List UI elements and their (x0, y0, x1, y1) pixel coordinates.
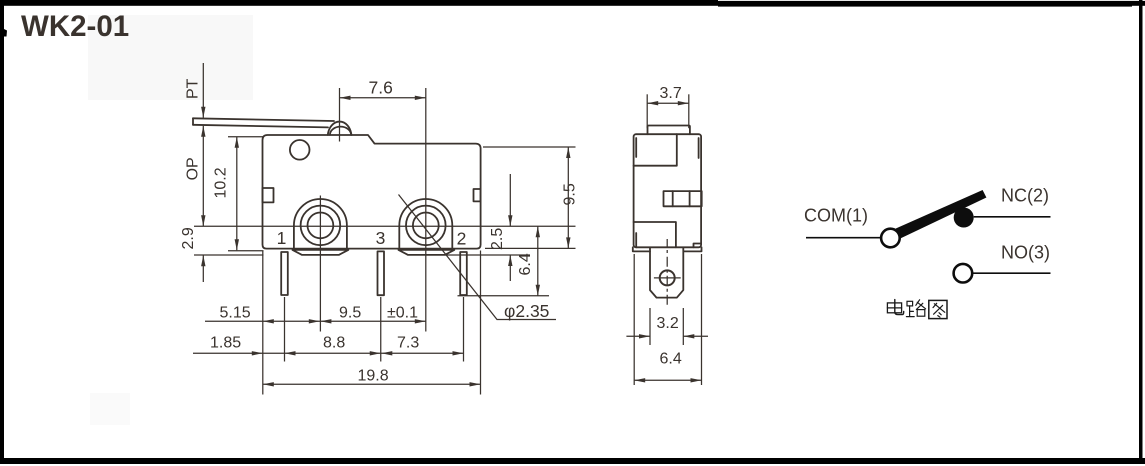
arrow PT down (201, 107, 205, 118)
ext pedestal bottom-left (194, 254, 264, 256)
svg-text:φ2.35: φ2.35 (504, 301, 549, 321)
dim row3 19.8 (263, 383, 481, 385)
arrow OP up (201, 126, 205, 137)
ext 3.2 right (682, 308, 684, 345)
arrow 9.5 up (566, 147, 570, 158)
ext body top-left for 10.2 (228, 136, 264, 138)
svg-text:±0.1: ±0.1 (387, 305, 418, 322)
arrow 9.5row right (415, 319, 426, 323)
switch body outline (263, 135, 481, 249)
side right edge tab upper (698, 138, 700, 158)
dim 9.5 vertical right (567, 147, 569, 248)
arrow 6.4 down (536, 285, 540, 296)
arrow 10.2 down (235, 239, 239, 250)
wire COM (806, 237, 881, 239)
left boss outer (294, 199, 347, 249)
left pedestal (293, 250, 349, 255)
side strip divider 2 (689, 191, 691, 206)
faint scan patch top-left (88, 15, 253, 100)
arrow 3.7 right (678, 101, 689, 105)
svg-text:5.15: 5.15 (220, 305, 251, 322)
arrowheads front view (201, 96, 570, 387)
arrow 2.9 up from below (201, 255, 205, 266)
left boss centerline vertical (319, 196, 321, 332)
svg-text:9.5: 9.5 (339, 305, 361, 322)
lever arm left end cap (192, 118, 194, 125)
dim 7.6 horizontal (340, 97, 426, 99)
svg-text:OP: OP (185, 157, 202, 180)
dim OP vertical (202, 126, 204, 227)
ext pin tip right for 6.4 (458, 295, 550, 297)
svg-text:WK2-01: WK2-01 (21, 10, 129, 43)
svg-text:6.4: 6.4 (660, 351, 682, 368)
dim 2.9 tail (202, 255, 204, 282)
page border: left bar (0, 0, 4, 458)
arrow 6.4 right (691, 378, 702, 382)
ext pin3 down (380, 297, 382, 362)
ext 6.4 right (701, 254, 703, 385)
faint scan patch bottom-left (90, 393, 130, 425)
side bottom-right corner step (694, 244, 702, 248)
right boss inner circle (413, 213, 439, 239)
ext 3.2 left (649, 308, 651, 345)
side bottom flange right (684, 247, 701, 251)
ext body right edge down (480, 251, 482, 395)
side middle strip (664, 191, 702, 206)
side hole horizontal crosshair (654, 277, 681, 279)
svg-text:7.6: 7.6 (369, 78, 393, 98)
left boss inner circle (308, 213, 334, 239)
svg-text:3: 3 (376, 228, 386, 248)
svg-text:NO(3): NO(3) (1001, 243, 1050, 263)
caption dian-lu-tu (circuit diagram) drawn glyphs (887, 300, 947, 319)
side left edge tab lower (635, 233, 637, 247)
dim row1 5.15 / 9.5 (205, 320, 426, 322)
svg-text:COM(1): COM(1) (804, 206, 868, 226)
arrow 8.8 left (285, 351, 296, 355)
left boss middle circle (301, 206, 341, 246)
arrow 19.8 right (470, 382, 481, 386)
boss horizontal centerline / extension (194, 225, 576, 227)
svg-text:2.9: 2.9 (180, 227, 197, 249)
roller centerline (339, 88, 341, 142)
left side tab (263, 188, 274, 202)
ext pedestal bottom-right for 2.5 (445, 254, 530, 256)
side bottom flange left (633, 247, 650, 251)
right pedestal (399, 250, 455, 255)
arrow 3.2 left (639, 334, 650, 338)
right boss middle circle (406, 206, 446, 246)
arrow 2.5 up (508, 255, 512, 266)
dim 3.7 line (647, 102, 689, 104)
leader phi2.35 (399, 195, 557, 320)
COM pivot circle (881, 229, 900, 248)
NC contact dot (954, 208, 974, 228)
side terminal hole (660, 270, 675, 285)
right boss outer (399, 199, 452, 249)
svg-text:3.7: 3.7 (660, 85, 682, 102)
svg-text:19.8: 19.8 (358, 368, 389, 385)
side inner top-left rect (634, 134, 677, 166)
extension lines (194, 137, 576, 395)
roller outer arc (328, 122, 352, 135)
ext top-right for 9.5 (483, 146, 576, 148)
arrow 2.5 down (508, 215, 512, 226)
arrow 5.15 left (263, 319, 274, 323)
arrow 7.3 right (453, 351, 464, 355)
arrow 3.7 left (647, 101, 658, 105)
roller inner arc (330, 127, 351, 135)
arrow 8.8 right (370, 351, 381, 355)
svg-text:1: 1 (277, 228, 287, 248)
ext pin2 down (463, 297, 465, 362)
svg-text:9.5: 9.5 (562, 183, 579, 205)
side terminal (650, 248, 683, 298)
svg-text:10.2: 10.2 (213, 167, 230, 198)
svg-text:7.3: 7.3 (397, 335, 419, 352)
arrow 10.2 up (235, 137, 239, 148)
page border: right bar (1139, 0, 1143, 459)
dim 3.2 left tail (626, 335, 650, 337)
wire NO (972, 272, 1050, 274)
dim 2.5 upper segment (509, 174, 511, 226)
pin 2 (460, 252, 467, 295)
ext body bottom-left (228, 250, 264, 252)
arrow 6.4 up (536, 226, 540, 237)
ext bottom-right for 9.5 (485, 247, 576, 249)
arrow 5.15 right (309, 319, 320, 323)
ext 3.7 right (688, 94, 690, 128)
side left edge tab upper (635, 138, 637, 157)
NO contact circle (954, 264, 973, 283)
glyph lu (906, 300, 925, 317)
arrow 3.2 right (683, 334, 694, 338)
side lower-left rect (634, 222, 676, 247)
front view centerlines (194, 88, 576, 332)
right side tab (474, 189, 481, 201)
arrow 1.85 right-pointing (252, 351, 263, 355)
side strip divider 1 (672, 191, 674, 206)
svg-text:PT: PT (185, 78, 202, 99)
arrow 7.3 left (381, 351, 392, 355)
page border: bottom bar (0, 458, 1145, 464)
svg-text:2.5: 2.5 (489, 228, 506, 250)
dim PT vertical (202, 63, 204, 118)
wire NC (974, 216, 1051, 218)
right boss centerline vertical (425, 88, 427, 332)
svg-text:NC(2): NC(2) (1001, 186, 1049, 206)
arrow 9.5row left (320, 319, 331, 323)
pin 1 (281, 252, 288, 295)
arrow 7.6 left (340, 96, 351, 100)
lever arm top line (193, 118, 334, 121)
front view dimension texts (180, 78, 579, 385)
svg-text:1.85: 1.85 (210, 335, 241, 352)
glyph dian (887, 300, 903, 315)
side button (648, 126, 690, 135)
svg-text:2: 2 (457, 229, 467, 249)
glyph tu (929, 300, 947, 318)
dim 10.2 vertical (236, 137, 238, 251)
svg-text:8.8: 8.8 (323, 335, 345, 352)
arrow 6.4 left (634, 378, 645, 382)
top-left hole circle (290, 140, 310, 160)
ext pin1 down (284, 297, 286, 362)
svg-text:3.2: 3.2 (657, 315, 679, 332)
arrow 19.8 left (263, 382, 274, 386)
svg-text:6.4: 6.4 (517, 253, 534, 275)
side body outline (634, 134, 702, 247)
side upper centerline (666, 239, 668, 253)
dim 3.2 right tail (683, 335, 708, 337)
dimension lines (193, 63, 568, 384)
dim row2 1.85 / 8.8 / 7.3 (193, 352, 464, 354)
dim 6.4 line (634, 379, 701, 381)
arrow 9.5 down (566, 237, 570, 248)
side hole vertical centerline (666, 257, 668, 305)
dim 6.4 vertical (537, 226, 539, 295)
page border: top bar (0, 0, 1145, 7)
arrow 7.6 right (415, 96, 426, 100)
ext body left edge down (262, 251, 264, 395)
ext 6.4 left (633, 254, 635, 385)
switch lever blade (896, 190, 987, 238)
cut-off glyph nub on left bar (4, 29, 7, 37)
lever arm bottom line (193, 125, 328, 128)
dim 2.5 lower segment (509, 255, 511, 281)
pin 3 (378, 251, 385, 295)
arrow OP down (201, 215, 205, 226)
ext 3.7 left (646, 94, 648, 128)
